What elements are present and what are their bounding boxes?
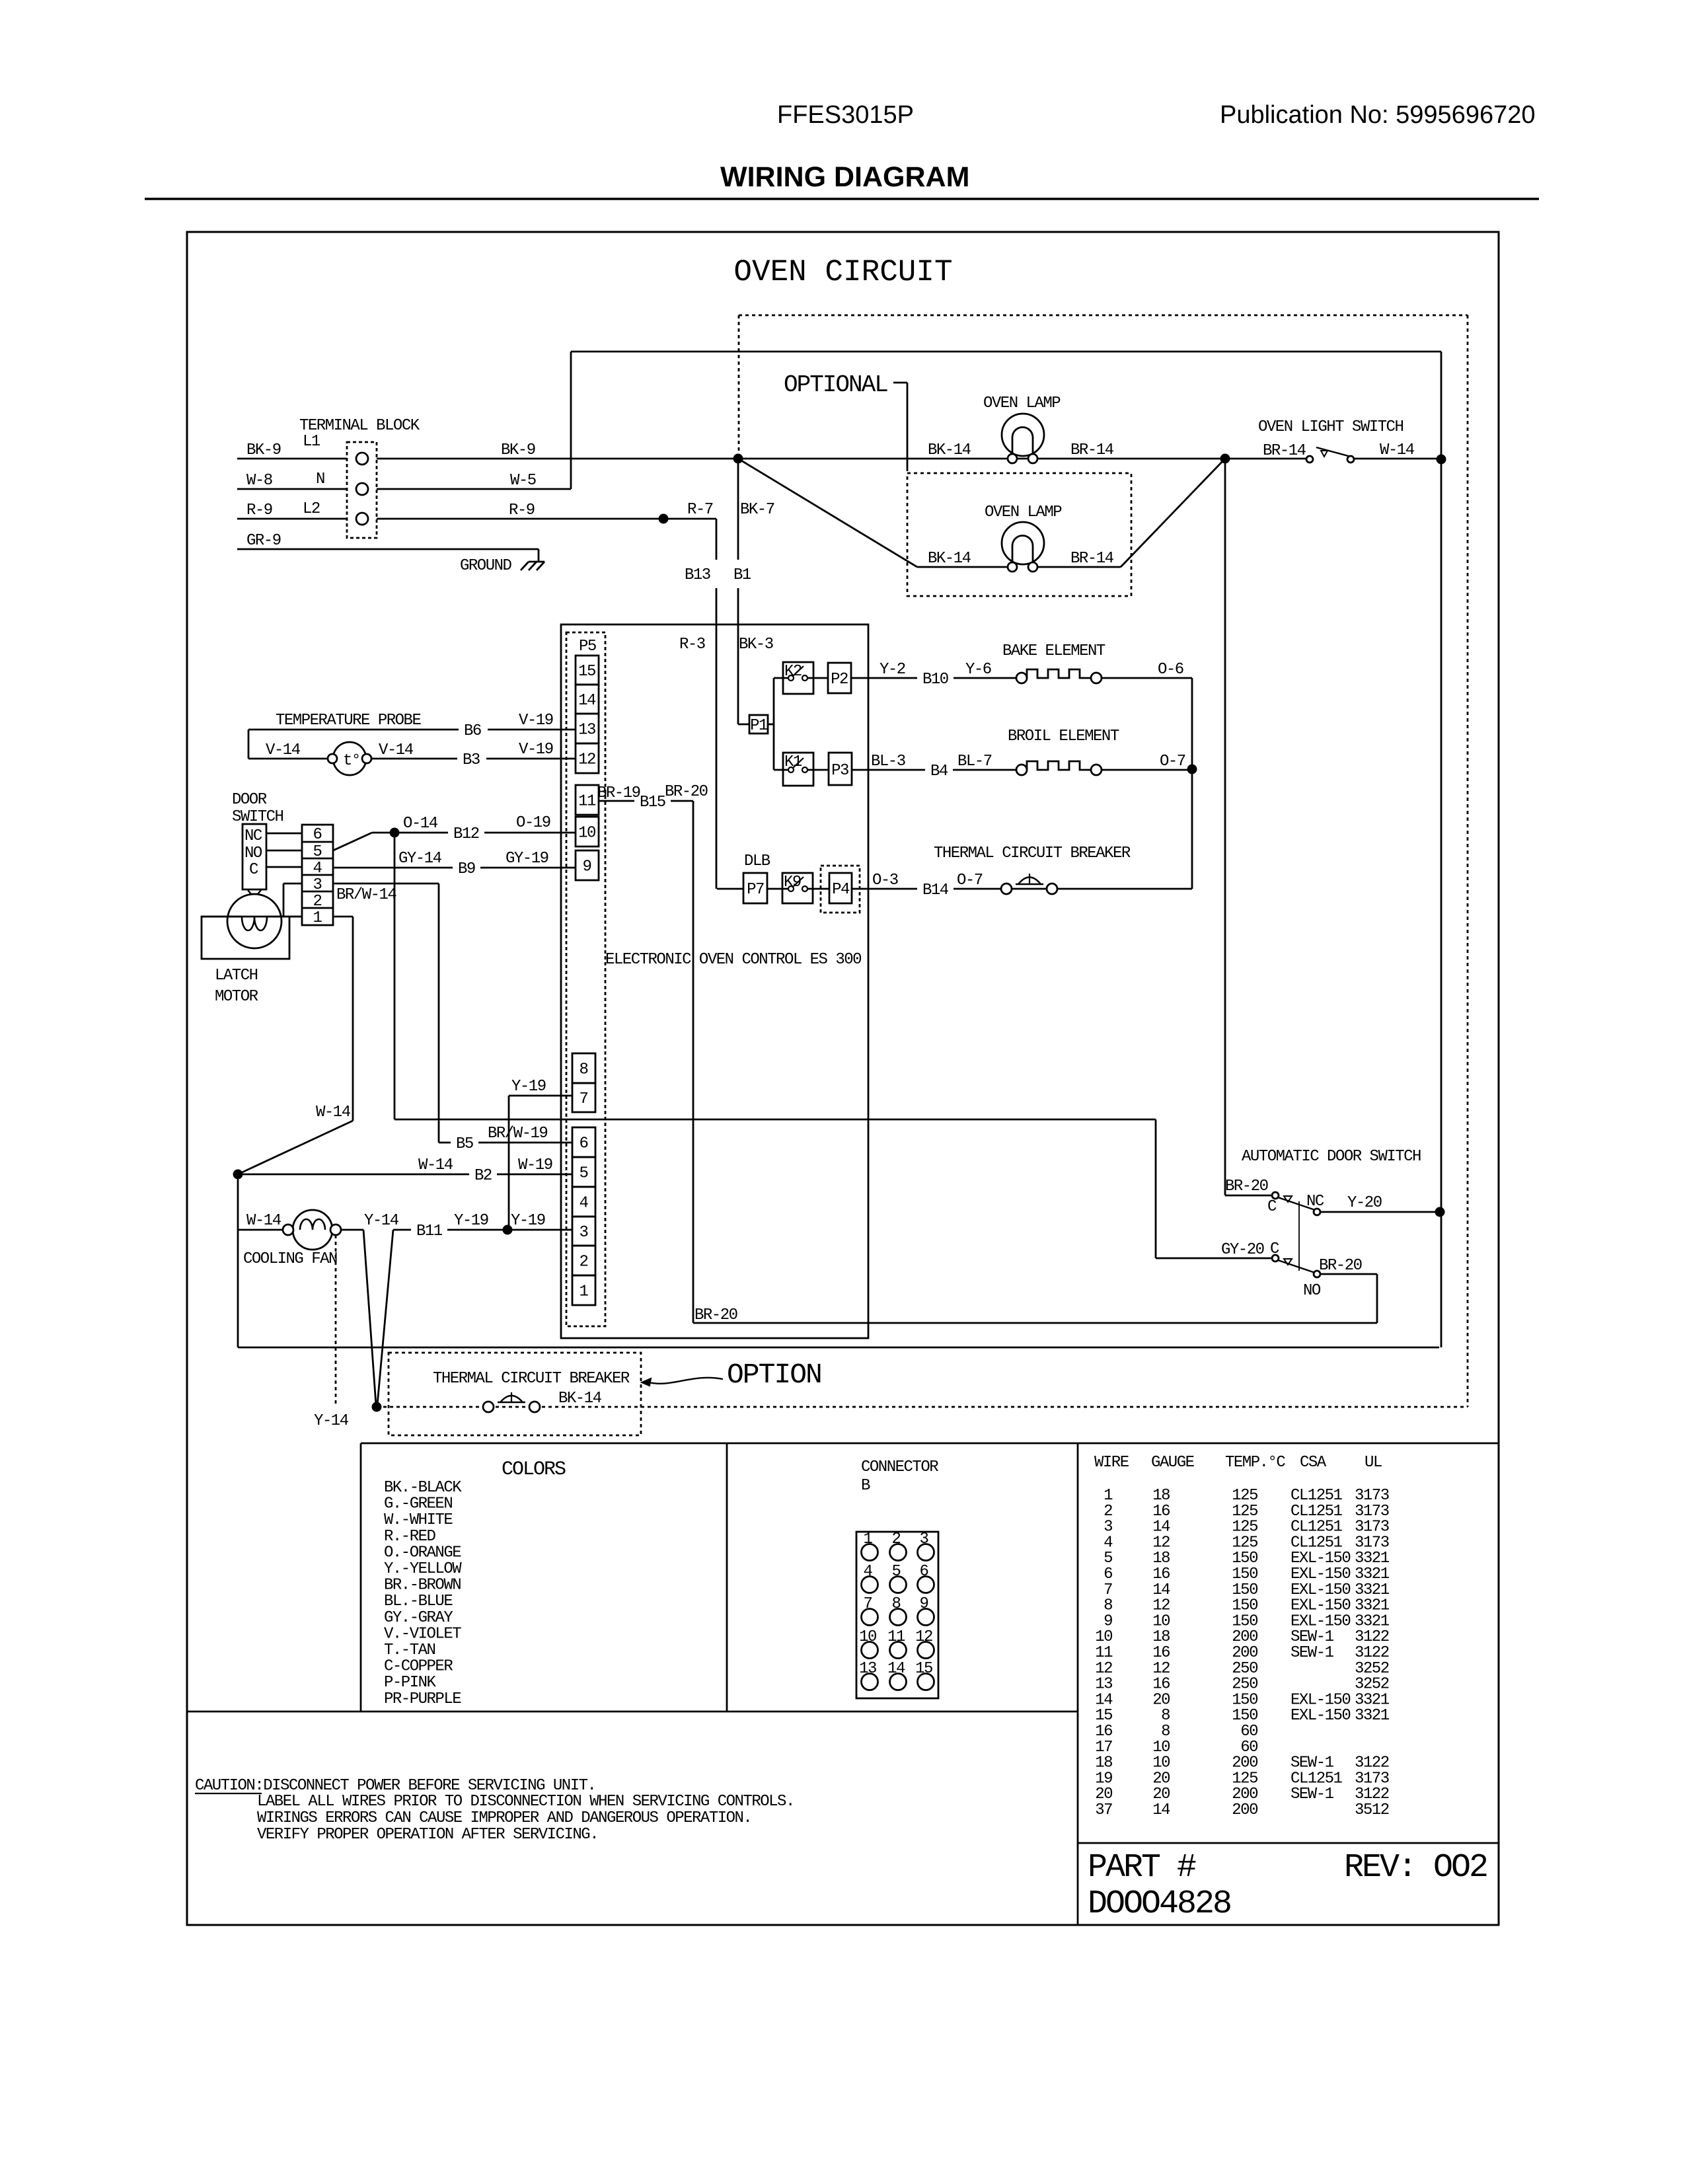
svg-text:NO: NO [1303,1282,1321,1300]
svg-text:O.-ORANGE: O.-ORANGE [384,1544,461,1562]
svg-text:Y.-YELLOW: Y.-YELLOW [384,1560,462,1578]
svg-text:DLB: DLB [744,852,770,870]
svg-text:11: 11 [578,793,596,811]
svg-text:DOOR: DOOR [232,791,267,809]
svg-text:B10: B10 [922,671,948,689]
svg-text:7: 7 [580,1090,588,1108]
svg-text:BR-20: BR-20 [1319,1257,1362,1275]
svg-text:G.-GREEN: G.-GREEN [384,1495,452,1513]
svg-text:1: 1 [313,909,322,927]
svg-text:10: 10 [578,825,595,843]
svg-text:CSA: CSA [1300,1454,1327,1472]
svg-text:BR-20: BR-20 [694,1306,737,1324]
svg-text:VERIFY PROPER OPERATION AFTER: VERIFY PROPER OPERATION AFTER SERVICING. [257,1826,598,1844]
svg-text:14: 14 [1152,1801,1170,1819]
svg-text:Y-2: Y-2 [880,661,905,679]
svg-text:4: 4 [313,860,322,878]
svg-text:37: 37 [1095,1801,1112,1819]
svg-text:B12: B12 [453,825,479,843]
svg-text:BK-7: BK-7 [740,501,774,519]
svg-text:5: 5 [313,843,322,861]
svg-text:B4: B4 [930,763,948,780]
svg-text:Y-19: Y-19 [454,1212,488,1230]
svg-text:Y-19: Y-19 [511,1078,546,1096]
svg-text:V-14: V-14 [266,741,301,759]
svg-text:B2: B2 [474,1167,492,1185]
svg-text:V-14: V-14 [379,741,414,759]
svg-text:FFES3015P: FFES3015P [777,101,914,129]
svg-text:V-19: V-19 [519,741,553,759]
svg-text:W-5: W-5 [510,472,536,490]
svg-text:BAKE ELEMENT: BAKE ELEMENT [1002,642,1105,660]
svg-text:BR-20: BR-20 [1225,1178,1268,1195]
svg-text:O-19: O-19 [516,814,550,832]
svg-text:L2: L2 [303,500,320,518]
svg-text:BK-9: BK-9 [246,441,281,459]
svg-text:GY.-GRAY: GY.-GRAY [384,1609,453,1627]
svg-text:NC: NC [244,827,262,845]
svg-text:BL-7: BL-7 [957,753,992,771]
svg-text:OVEN CIRCUIT: OVEN CIRCUIT [733,255,952,289]
svg-text:C: C [249,861,258,879]
svg-text:SEW-1: SEW-1 [1291,1644,1334,1662]
svg-text:Y-14: Y-14 [364,1212,399,1230]
svg-text:GY-20: GY-20 [1221,1241,1264,1259]
svg-text:BK-3: BK-3 [739,636,773,654]
svg-text:GROUND: GROUND [460,557,512,575]
svg-text:P-PINK: P-PINK [384,1674,437,1692]
svg-text:SEW-1: SEW-1 [1291,1786,1334,1803]
svg-text:BL.-BLUE: BL.-BLUE [384,1593,453,1610]
svg-text:200: 200 [1232,1801,1257,1819]
svg-text:GR-9: GR-9 [246,532,281,550]
svg-text:MOTOR: MOTOR [215,988,258,1006]
svg-text:TEMPERATURE PROBE: TEMPERATURE PROBE [276,712,421,730]
svg-text:B11: B11 [416,1223,443,1240]
svg-text:GAUGE: GAUGE [1151,1454,1195,1472]
svg-text:R-9: R-9 [246,502,272,519]
svg-text:OPTIONAL: OPTIONAL [784,371,887,398]
svg-text:3512: 3512 [1355,1801,1389,1819]
svg-text:BK-14: BK-14 [928,441,971,459]
svg-text:Y-6: Y-6 [965,661,991,679]
svg-text:BR-14: BR-14 [1263,442,1306,460]
svg-text:W-14: W-14 [316,1104,351,1121]
svg-text:O-7: O-7 [1160,753,1185,771]
svg-text:BR-14: BR-14 [1070,550,1114,568]
svg-text:BK-14: BK-14 [558,1390,602,1408]
svg-text:8: 8 [580,1061,588,1079]
svg-text:6: 6 [313,826,322,844]
svg-text:P2: P2 [831,671,848,689]
svg-text:WIRING DIAGRAM: WIRING DIAGRAM [720,161,969,193]
svg-text:PR-PURPLE: PR-PURPLE [384,1690,461,1708]
svg-text:BR/W-19: BR/W-19 [488,1125,547,1143]
svg-text:UL: UL [1365,1454,1382,1472]
svg-text:WIRINGS ERRORS CAN CAUSE IMPRO: WIRINGS ERRORS CAN CAUSE IMPROPER AND DA… [257,1809,751,1827]
svg-text:B6: B6 [464,722,481,740]
svg-text:B9: B9 [458,860,475,878]
svg-text:V.-VIOLET: V.-VIOLET [384,1625,461,1643]
svg-text:BL-3: BL-3 [871,753,905,771]
svg-text:WIRE: WIRE [1094,1454,1129,1472]
svg-text:B3: B3 [463,751,480,769]
svg-text:CONNECTOR: CONNECTOR [861,1458,938,1476]
svg-text:BK-14: BK-14 [928,550,971,568]
svg-text:W.-WHITE: W.-WHITE [384,1511,453,1529]
svg-text:9: 9 [583,858,591,876]
svg-text:O-14: O-14 [403,815,438,833]
svg-text:BR-14: BR-14 [1070,441,1114,459]
svg-text:OPTION: OPTION [727,1359,821,1391]
svg-text:C: C [1267,1198,1277,1216]
svg-text:3321: 3321 [1355,1707,1390,1725]
svg-text:12: 12 [578,751,595,769]
svg-text:13: 13 [578,722,595,739]
svg-text:t°: t° [343,752,360,770]
svg-text:3: 3 [313,876,322,894]
svg-text:COOLING FAN: COOLING FAN [243,1250,337,1268]
svg-text:R.-RED: R.-RED [384,1528,436,1546]
svg-text:BR-20: BR-20 [665,783,708,801]
svg-text:PART #: PART # [1088,1849,1196,1887]
svg-text:P5: P5 [579,638,596,656]
svg-text:O-3: O-3 [872,872,898,889]
svg-text:LATCH: LATCH [215,967,258,985]
svg-text:OVEN LAMP: OVEN LAMP [985,504,1062,521]
svg-text:REV: OO2: REV: OO2 [1344,1849,1487,1887]
svg-text:OVEN LAMP: OVEN LAMP [983,395,1061,412]
svg-text:CAUTION:DISCONNECT POWER BEFOR: CAUTION:DISCONNECT POWER BEFORE SERVICIN… [195,1777,595,1795]
svg-text:THERMAL CIRCUIT BREAKER: THERMAL CIRCUIT BREAKER [934,845,1131,862]
svg-text:B13: B13 [685,566,710,584]
svg-text:ELECTRONIC OVEN CONTROL ES 300: ELECTRONIC OVEN CONTROL ES 300 [605,951,861,969]
svg-text:W-8: W-8 [246,472,272,490]
svg-text:P7: P7 [747,881,764,899]
svg-text:W-19: W-19 [518,1156,552,1174]
svg-text:6: 6 [580,1135,588,1153]
svg-text:C-COPPER: C-COPPER [384,1658,453,1676]
svg-text:B: B [861,1477,870,1495]
svg-text:P3: P3 [831,762,848,780]
svg-text:2: 2 [313,893,322,911]
svg-text:R-7: R-7 [687,501,713,519]
svg-text:B15: B15 [640,794,665,811]
svg-text:BK-9: BK-9 [501,441,535,459]
svg-text:Publication No: 5995696720: Publication No: 5995696720 [1220,101,1536,129]
svg-text:BK.-BLACK: BK.-BLACK [384,1479,462,1497]
svg-text:W-14: W-14 [1380,441,1415,459]
svg-text:P4: P4 [832,881,850,899]
svg-text:B1: B1 [733,566,751,584]
svg-text:COLORS: COLORS [502,1458,566,1481]
svg-text:LABEL ALL WIRES PRIOR TO DISCO: LABEL ALL WIRES PRIOR TO DISCONNECTION W… [257,1793,794,1811]
svg-text:4: 4 [580,1195,589,1213]
svg-text:THERMAL CIRCUIT BREAKER: THERMAL CIRCUIT BREAKER [433,1370,630,1388]
svg-text:Y-20: Y-20 [1347,1194,1382,1212]
svg-text:TERMINAL BLOCK: TERMINAL BLOCK [299,417,420,435]
svg-text:EXL-150: EXL-150 [1291,1707,1350,1725]
svg-text:T.-TAN: T.-TAN [384,1641,435,1659]
svg-text:BR-19: BR-19 [597,784,640,802]
svg-text:P1: P1 [750,717,768,735]
svg-text:W-14: W-14 [246,1212,281,1230]
svg-text:R-3: R-3 [679,636,705,654]
svg-text:Y-14: Y-14 [314,1412,349,1430]
svg-text:OVEN LIGHT SWITCH: OVEN LIGHT SWITCH [1258,418,1403,436]
svg-text:5: 5 [580,1165,588,1183]
svg-text:O-6: O-6 [1158,661,1183,679]
svg-text:DOOO4828: DOOO4828 [1088,1885,1230,1923]
svg-text:AUTOMATIC DOOR SWITCH: AUTOMATIC DOOR SWITCH [1242,1148,1421,1166]
svg-text:L1: L1 [303,433,320,451]
svg-text:GY-14: GY-14 [398,850,442,868]
svg-text:14: 14 [578,692,596,710]
svg-text:N: N [316,471,324,488]
svg-text:BROIL ELEMENT: BROIL ELEMENT [1008,728,1119,745]
svg-text:NO: NO [244,845,262,862]
svg-text:GY-19: GY-19 [505,850,548,868]
svg-text:Y-19: Y-19 [511,1212,545,1230]
svg-text:BR.-BROWN: BR.-BROWN [384,1577,461,1595]
svg-text:BR/W-14: BR/W-14 [336,886,396,904]
svg-text:1: 1 [580,1283,589,1301]
svg-text:B14: B14 [922,882,949,899]
svg-text:O-7: O-7 [957,872,983,889]
svg-text:TEMP.°C: TEMP.°C [1225,1454,1285,1472]
svg-text:15: 15 [578,663,595,681]
svg-text:NC: NC [1306,1193,1324,1211]
svg-text:3: 3 [580,1224,588,1242]
svg-text:B5: B5 [456,1135,473,1153]
svg-text:2: 2 [580,1254,588,1271]
svg-text:R-9: R-9 [509,502,535,519]
svg-text:V-19: V-19 [519,712,553,730]
svg-text:W-14: W-14 [418,1156,453,1174]
